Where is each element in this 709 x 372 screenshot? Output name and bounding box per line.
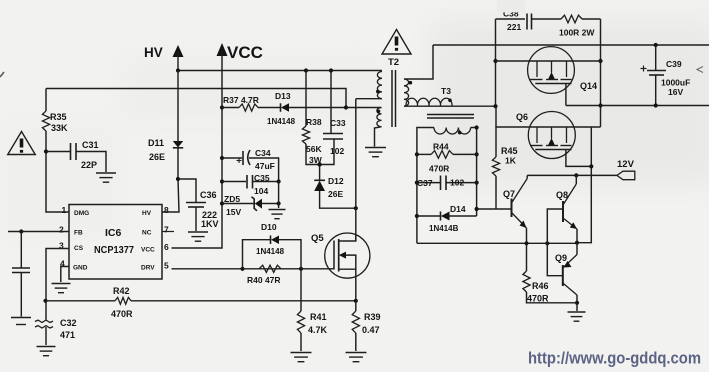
capacitor C38 221 xyxy=(496,18,526,20)
resistor R46 470R xyxy=(526,243,528,271)
capacitor C35 104 xyxy=(220,179,224,183)
wire output lower rail xyxy=(566,105,709,107)
node output rail junction xyxy=(598,103,602,107)
svg-text:T2: T2 xyxy=(388,57,399,68)
capacitor C39 1000uF 16V xyxy=(654,43,658,47)
svg-text:104: 104 xyxy=(254,186,268,196)
node HV/C36 junction xyxy=(176,177,180,181)
svg-text:2: 2 xyxy=(59,225,64,235)
svg-text:16V: 16V xyxy=(668,87,683,97)
resistor R35 xyxy=(45,89,47,112)
transistor Q6 MOSFET xyxy=(528,112,575,159)
resistor R45 1K xyxy=(495,127,497,157)
wire VCC vertical xyxy=(172,50,223,248)
resistor R38 56K 3W xyxy=(305,71,307,127)
svg-text:8: 8 xyxy=(164,205,169,215)
wire T3 bottom right xyxy=(471,128,477,217)
svg-text:33K: 33K xyxy=(51,123,68,133)
svg-text:12V: 12V xyxy=(617,159,635,170)
resistor R39 0.47 xyxy=(352,311,359,333)
svg-text:CS: CS xyxy=(74,245,84,252)
svg-text:102: 102 xyxy=(330,146,344,156)
capacitor C34 47uF xyxy=(220,156,224,160)
ground R39 xyxy=(346,352,367,354)
svg-text:C33: C33 xyxy=(330,118,346,128)
svg-text:D11: D11 xyxy=(148,138,164,148)
diode D10 1N4148 xyxy=(243,240,271,269)
svg-text:7: 7 xyxy=(164,225,169,235)
svg-text:221: 221 xyxy=(507,22,521,32)
resistor R41 4.7K xyxy=(300,269,302,311)
node T3/gates junction xyxy=(493,104,497,108)
ground C31 xyxy=(96,172,116,174)
svg-text:R39: R39 xyxy=(364,312,381,322)
op-amp IC6 NCP1377 box xyxy=(69,205,162,280)
svg-text:4.7K: 4.7K xyxy=(308,325,328,335)
svg-text:T3: T3 xyxy=(441,86,451,96)
svg-text:DRV: DRV xyxy=(141,265,155,272)
svg-text:470R: 470R xyxy=(429,164,449,174)
svg-text:26E: 26E xyxy=(328,189,343,199)
svg-text:C34: C34 xyxy=(255,148,271,158)
ground C36 xyxy=(188,231,208,233)
svg-text:C37: C37 xyxy=(417,178,433,188)
wire DRV pin5 xyxy=(172,268,335,270)
transistor Q14 MOSFET xyxy=(528,47,575,94)
svg-text:56K: 56K xyxy=(306,144,322,154)
ground C32 xyxy=(37,346,56,348)
svg-text:HV: HV xyxy=(142,210,152,217)
transformer T3 winding bottom xyxy=(434,128,471,135)
warning symbol W1 xyxy=(8,132,36,155)
capacitor C36 xyxy=(178,179,196,202)
wire T2 primary bottom to drain xyxy=(356,98,382,100)
diode D14 1N414B xyxy=(415,214,419,218)
svg-text:R37 4.7R: R37 4.7R xyxy=(223,95,259,105)
svg-text:Q8: Q8 xyxy=(556,190,568,200)
node gate row left xyxy=(493,59,497,63)
node Q8 emitter junction xyxy=(575,241,579,245)
ground ZD5 xyxy=(269,209,286,211)
svg-text:470R: 470R xyxy=(111,309,133,319)
node Q8 collector junction xyxy=(574,173,578,177)
wire CS pin3 xyxy=(46,249,69,301)
svg-text:R46: R46 xyxy=(532,281,549,291)
ground R41 xyxy=(291,352,312,354)
transformer T2 secondary xyxy=(404,79,409,106)
node base link junction xyxy=(545,241,549,245)
transformer T2 aux winding xyxy=(346,107,382,109)
wire HV top rail xyxy=(178,70,382,72)
svg-text:NC: NC xyxy=(142,230,152,237)
svg-text:VCC: VCC xyxy=(227,43,263,62)
wire base rail xyxy=(417,242,577,244)
resistor R44 470R xyxy=(415,152,419,156)
node Q6 source junction xyxy=(589,164,593,168)
svg-text:1KV: 1KV xyxy=(201,219,219,229)
resistor 100R 2W xyxy=(561,15,582,23)
svg-text:NCP1377: NCP1377 xyxy=(94,245,134,256)
capacitor C32 471 xyxy=(45,301,47,321)
svg-text:R40 47R: R40 47R xyxy=(247,275,281,285)
svg-text:IC6: IC6 xyxy=(105,227,122,239)
svg-text:R38: R38 xyxy=(306,117,322,127)
diode D12 26E xyxy=(319,165,321,181)
node DRV/D10 junction xyxy=(240,267,244,271)
wire T2 secondary bottom / T3 xyxy=(404,105,496,107)
wire Q6 source xyxy=(566,150,591,167)
resistor R37 4.7R xyxy=(220,105,224,109)
svg-text:FB: FB xyxy=(74,230,83,237)
svg-text:1000uF: 1000uF xyxy=(661,78,690,88)
resistor R40 47R xyxy=(259,265,281,272)
node drain junction xyxy=(354,206,358,210)
svg-text:470R: 470R xyxy=(527,294,549,304)
svg-text:471: 471 xyxy=(60,330,75,340)
svg-text:R35: R35 xyxy=(50,112,67,122)
wire Q7 emitter xyxy=(526,228,528,243)
wire Q5 drain from T2 xyxy=(355,99,357,241)
node aux junction xyxy=(344,105,348,109)
wire T2 aux to ground xyxy=(375,127,382,147)
svg-text:R41: R41 xyxy=(310,312,327,322)
node gate row right xyxy=(598,59,602,63)
wire snubber right vertical xyxy=(600,19,602,127)
wire aux rail xyxy=(46,89,346,108)
svg-text:D12: D12 xyxy=(328,176,344,186)
svg-text:102: 102 xyxy=(450,178,464,188)
wire output top rail xyxy=(433,44,709,46)
capacitor FB filter xyxy=(20,232,22,268)
svg-text:R42: R42 xyxy=(113,286,130,296)
svg-text:R45: R45 xyxy=(501,146,518,156)
node R38/C33 junction xyxy=(317,162,321,166)
wire Q6 branch vertical xyxy=(577,127,591,243)
wire T3 bottom left xyxy=(417,128,434,244)
warning symbol W2 xyxy=(382,30,411,55)
svg-text:1N4148: 1N4148 xyxy=(267,117,296,126)
transformer T3 core xyxy=(427,114,474,116)
ground T2 aux xyxy=(365,147,386,149)
ground FB cap xyxy=(11,317,31,319)
svg-text:26E: 26E xyxy=(149,152,165,162)
wire snubber left vertical xyxy=(495,19,497,106)
svg-text:0.47: 0.47 xyxy=(362,325,380,335)
mark small arrow right edge xyxy=(697,67,703,73)
svg-text:C32: C32 xyxy=(60,318,77,328)
svg-text:VCC: VCC xyxy=(141,247,155,254)
svg-text:D10: D10 xyxy=(261,222,277,232)
svg-text:R44: R44 xyxy=(433,142,449,152)
node Q9 collector junction xyxy=(575,301,579,305)
diode D11 26E xyxy=(177,71,179,142)
transistor Q5 MOSFET xyxy=(325,233,370,278)
wire Q6 gate row xyxy=(496,106,601,127)
svg-text:5: 5 xyxy=(164,261,169,271)
wire Q8/Q9 base link xyxy=(547,209,563,276)
svg-text:DMG: DMG xyxy=(74,210,89,217)
svg-text:C36: C36 xyxy=(200,190,217,200)
zener ZD5 15V xyxy=(220,201,224,205)
svg-text:HV: HV xyxy=(144,45,163,60)
svg-text:1K: 1K xyxy=(505,156,517,166)
svg-text:1N414B: 1N414B xyxy=(429,224,459,233)
svg-text:ZD5: ZD5 xyxy=(224,194,240,204)
wire Q7 base xyxy=(477,208,512,210)
capacitor C37 102 xyxy=(415,181,419,185)
wire T2 secondary top to output rail xyxy=(404,45,433,79)
resistor R42 470R xyxy=(115,297,131,304)
node Q7 emitter junction xyxy=(524,241,528,245)
svg-text:C39: C39 xyxy=(666,59,682,69)
svg-text:GND: GND xyxy=(73,265,88,272)
capacitor C31 xyxy=(46,151,70,153)
wire FB pin2 xyxy=(8,231,69,233)
capacitor C33 102 xyxy=(330,71,332,134)
ground IC pin4 xyxy=(61,267,69,283)
svg-text:6: 6 xyxy=(164,242,169,252)
wire Q5 source xyxy=(355,269,357,301)
wire 12V line xyxy=(527,174,617,176)
wire stub mark left edge xyxy=(0,72,4,77)
wire to pin8 HV xyxy=(162,179,179,212)
node Q5 source junction xyxy=(354,299,358,303)
svg-text:Q9: Q9 xyxy=(555,253,567,263)
wire CS rail R42 xyxy=(43,299,47,303)
svg-text:D13: D13 xyxy=(275,91,291,101)
svg-text:15V: 15V xyxy=(226,207,241,217)
svg-text:Q6: Q6 xyxy=(516,112,528,122)
svg-text:D14: D14 xyxy=(450,204,466,214)
svg-text:47uF: 47uF xyxy=(255,161,275,171)
svg-text:C31: C31 xyxy=(82,140,99,150)
svg-text:C35: C35 xyxy=(254,173,270,183)
svg-text:http://www.go-gddq.com: http://www.go-gddq.com xyxy=(528,350,701,368)
svg-text:100R 2W: 100R 2W xyxy=(559,28,595,38)
svg-text:1N4148: 1N4148 xyxy=(256,247,285,256)
svg-text:Q7: Q7 xyxy=(503,189,515,199)
svg-text:22P: 22P xyxy=(81,160,97,170)
node junction R35/C31 xyxy=(44,149,48,153)
ground Q9 xyxy=(568,311,586,313)
diode D13 1N4148 xyxy=(280,103,282,112)
svg-text:1: 1 xyxy=(62,205,67,215)
node R40/gate junction xyxy=(299,267,303,271)
wire Q9 to ground xyxy=(576,303,578,311)
wire Q14 source xyxy=(565,84,567,106)
svg-text:Q14: Q14 xyxy=(580,81,597,91)
svg-text:Q5: Q5 xyxy=(311,233,324,244)
